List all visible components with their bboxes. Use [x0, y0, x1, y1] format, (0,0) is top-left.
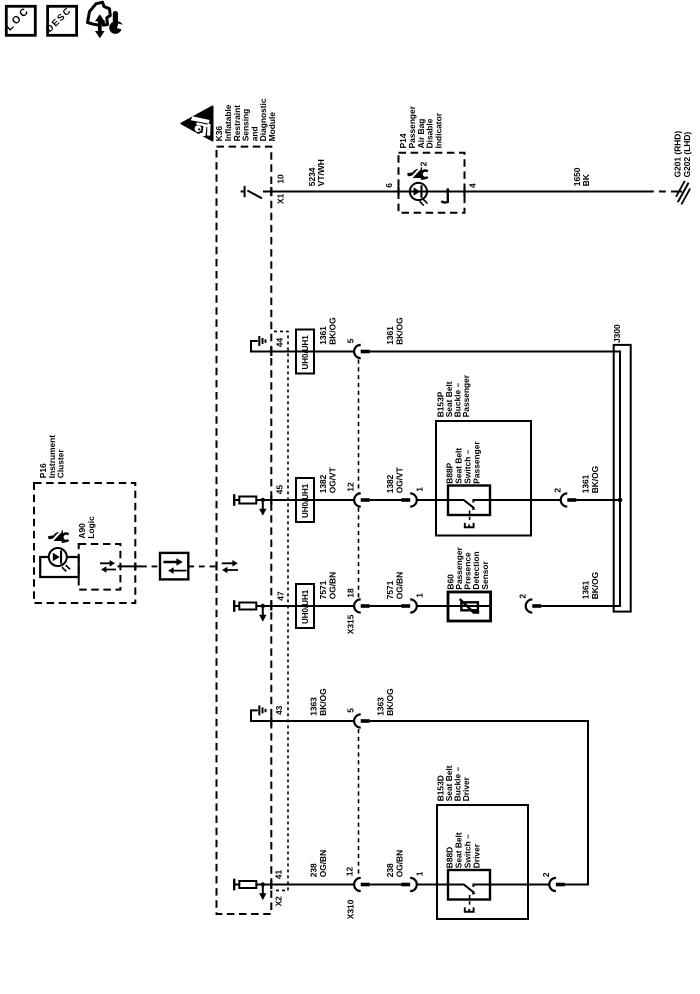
- harness code box UH0/UH1: [296, 584, 314, 628]
- P16 pin tick: [134, 562, 136, 570]
- wire label 1363 BK/OG: [309, 688, 328, 715]
- wire label 1363 BK/OG (right): [376, 688, 395, 715]
- wire label 1382 OG/VT: [318, 466, 337, 493]
- wire label 5234 VT/WH: [307, 159, 326, 186]
- svg-text:Driver: Driver: [472, 843, 482, 868]
- buckle B153P label: [435, 374, 471, 417]
- svg-text:1: 1: [415, 871, 425, 876]
- wire label 1650 BK: [572, 167, 591, 186]
- svg-text:Driver: Driver: [461, 776, 471, 801]
- connector X1/X2 dashed face line: [274, 331, 289, 890]
- ground labels G201 (RHD) / G202 (LHD): [673, 131, 692, 178]
- svg-text:43: 43: [274, 705, 284, 715]
- wire pin2 to J300 with junction: [576, 498, 622, 503]
- splice J300 box: [614, 345, 631, 612]
- in-line connector X315 at row 47: [354, 599, 370, 612]
- cluster P16 label: [38, 435, 66, 478]
- wire label 7571 OG/BN (right): [385, 572, 404, 599]
- svg-text:OG/VT: OG/VT: [327, 466, 337, 493]
- svg-text:12: 12: [345, 482, 355, 492]
- svg-text:Passenger: Passenger: [461, 374, 471, 417]
- ground G201/G202: [676, 181, 690, 205]
- serial data wire A90 to gateway: [118, 565, 142, 567]
- LOC legend box: [3, 4, 35, 35]
- svg-text:2: 2: [517, 594, 527, 599]
- component connector pin 1 row 45: [401, 493, 416, 506]
- indicator P14 dashed box: [399, 153, 465, 213]
- wire to B60: [370, 605, 402, 607]
- svg-text:1: 1: [415, 593, 425, 598]
- wire label 1361 BK/OG (right): [385, 317, 404, 344]
- in-line connector at row 45: [354, 493, 370, 506]
- component connector pin 1 row 47: [401, 599, 416, 612]
- in-line connector at row 44: [354, 345, 370, 358]
- switch B88D contacts: [448, 884, 490, 912]
- buckle B153P box: [436, 421, 531, 536]
- indicator P14 label: [398, 105, 443, 148]
- dashed wire continuation: [647, 191, 676, 193]
- component connector pin 1 row 41: [401, 878, 417, 891]
- svg-text:UH0/UH1: UH0/UH1: [301, 335, 310, 370]
- airbag icon with label 2: [407, 167, 428, 180]
- sensor B60 label: [445, 546, 489, 589]
- svg-text:X310: X310: [345, 899, 355, 919]
- indicator LED loop in cluster: [40, 548, 78, 577]
- svg-text:X315: X315: [345, 614, 355, 634]
- K36 internal driver element at pin 47: [233, 600, 271, 622]
- wire pin 45 to connector: [271, 499, 354, 501]
- in-line connector X310 at row 41: [354, 878, 370, 891]
- wire label 238 OG/BN: [309, 850, 328, 877]
- svg-text:41: 41: [273, 870, 283, 880]
- serial data wire gateway to K36: [188, 565, 216, 567]
- svg-text:J300: J300: [612, 324, 622, 343]
- connector link dashed row45-row47: [358, 508, 360, 599]
- logic module A90 dashed box: [79, 544, 121, 590]
- svg-text:Indicator: Indicator: [433, 112, 443, 148]
- wire label 1361 BK/OG (to splice): [581, 572, 600, 599]
- svg-text:BK/OG: BK/OG: [590, 572, 600, 599]
- cluster P16 dashed box: [34, 483, 135, 603]
- connector pin 2 row 45: [561, 493, 577, 506]
- wire into B153P: [417, 499, 448, 501]
- svg-text:BK/OG: BK/OG: [327, 317, 337, 344]
- wire label 1361 BK/OG (to splice): [581, 466, 600, 493]
- sensor B60 box: [448, 592, 491, 621]
- LED lamp inside P14: [399, 183, 465, 206]
- svg-text:OG/BN: OG/BN: [318, 850, 328, 877]
- logic module A90 label: [77, 516, 96, 539]
- svg-text:OG/BN: OG/BN: [327, 572, 337, 599]
- svg-text:2: 2: [418, 161, 428, 166]
- DESC legend box: [44, 5, 76, 35]
- wire pin 41 to connector: [271, 884, 354, 886]
- svg-text:OG/BN: OG/BN: [394, 850, 404, 877]
- svg-text:OG/BN: OG/BN: [394, 572, 404, 599]
- wire label 7571 OG/BN: [318, 572, 337, 599]
- svg-text:BK/OG: BK/OG: [385, 688, 395, 715]
- K36 internal ground at pin 44: [251, 336, 271, 352]
- connector link dashed row44-row45: [358, 360, 360, 493]
- P14 pin ticks: [397, 187, 465, 196]
- svg-text:1: 1: [415, 487, 425, 492]
- svg-text:10: 10: [276, 174, 286, 184]
- connector pin 2 row 41: [549, 878, 565, 891]
- serial data arrows in A90: [100, 560, 116, 573]
- wire pin 47 to connector: [271, 605, 354, 607]
- svg-text:44: 44: [275, 338, 285, 348]
- wire connector to J300: [370, 352, 620, 607]
- wire P14 pin 4 to ground: [465, 191, 648, 193]
- serial data gateway symbol: [160, 553, 188, 580]
- svg-text:12: 12: [344, 867, 354, 877]
- svg-text:X1: X1: [275, 193, 285, 204]
- harness code box UH0/UH1: [296, 478, 314, 522]
- svg-text:Passenger: Passenger: [472, 441, 482, 484]
- svg-text:5: 5: [345, 708, 355, 713]
- svg-text:VT/WH: VT/WH: [316, 159, 326, 186]
- connector pin 2 row 47: [526, 599, 542, 612]
- SIR warning triangle: [182, 107, 213, 141]
- svg-text:47: 47: [276, 591, 286, 601]
- K36 internal driver element at pin 41: [233, 879, 271, 901]
- connector link dashed row43-row41: [358, 729, 360, 877]
- svg-text:Sensor: Sensor: [480, 560, 490, 589]
- wire to B153D: [370, 884, 402, 886]
- wire X1-10 to P14 pin 6: [271, 191, 398, 193]
- svg-text:4: 4: [467, 183, 477, 188]
- switch B88P contacts: [448, 500, 490, 528]
- svg-text:UH0/UH1: UH0/UH1: [301, 589, 310, 624]
- wire pin 43 to connector: [271, 720, 354, 722]
- module K36 label: [214, 98, 277, 141]
- case connection symbol in P14: [441, 188, 449, 202]
- switch B88P label: [445, 441, 482, 484]
- buckle B153D box: [437, 805, 528, 919]
- svg-text:BK/OG: BK/OG: [394, 317, 404, 344]
- svg-text:BK/OG: BK/OG: [590, 466, 600, 493]
- switch B88P box: [448, 486, 490, 516]
- svg-text:OG/VT: OG/VT: [394, 466, 404, 493]
- pin ticks on K36 right edge: [215, 187, 272, 889]
- wire to B153P: [370, 499, 402, 501]
- svg-text:X2: X2: [273, 896, 283, 907]
- svg-text:2: 2: [552, 488, 562, 493]
- svg-text:BK/OG: BK/OG: [318, 688, 328, 715]
- K36 internal ground at pin 43: [251, 705, 271, 721]
- K36 internal ignition-style switch at pin X1-10: [241, 186, 272, 199]
- wire row43 to B153D pin 2: [370, 721, 588, 885]
- switch B88D box: [448, 870, 490, 900]
- svg-text:UH0/UH1: UH0/UH1: [301, 483, 310, 518]
- svg-text:18: 18: [345, 588, 355, 598]
- svg-text:2: 2: [541, 872, 551, 877]
- module K36 dashed box: [217, 147, 272, 914]
- wire into B153D: [417, 884, 448, 886]
- data-link/tool icon: [88, 2, 123, 38]
- wire into B60: [417, 605, 448, 607]
- svg-text:BK: BK: [581, 174, 591, 186]
- wire label 1382 OG/VT (right): [385, 466, 404, 493]
- svg-text:G202 (LHD): G202 (LHD): [682, 132, 692, 178]
- buckle B153D label: [435, 765, 471, 801]
- switch B88D label: [445, 832, 482, 868]
- in-line connector at row 43: [354, 714, 370, 727]
- harness code box UH0/UH1: [296, 330, 314, 374]
- K36 internal driver element at pin 45: [233, 494, 271, 516]
- wire B88P to B153P pin 2: [490, 499, 561, 501]
- svg-text:5: 5: [345, 338, 355, 343]
- K36 internal serial data arrows: [222, 560, 238, 573]
- svg-text:6: 6: [384, 183, 394, 188]
- wire label 238 OG/BN (right): [385, 850, 404, 877]
- svg-text:Cluster: Cluster: [56, 449, 66, 479]
- svg-text:45: 45: [275, 485, 285, 495]
- svg-text:LOC: LOC: [3, 4, 32, 33]
- wire label 1361 BK/OG: [318, 317, 337, 344]
- wire B88D to B153D pin 2: [490, 884, 549, 886]
- svg-text:Logic: Logic: [86, 516, 96, 539]
- airbag icon in cluster: [48, 530, 69, 543]
- sensor element: [448, 599, 491, 613]
- wire pin 44 to splice J300: [271, 351, 354, 353]
- svg-text:Module: Module: [267, 112, 277, 142]
